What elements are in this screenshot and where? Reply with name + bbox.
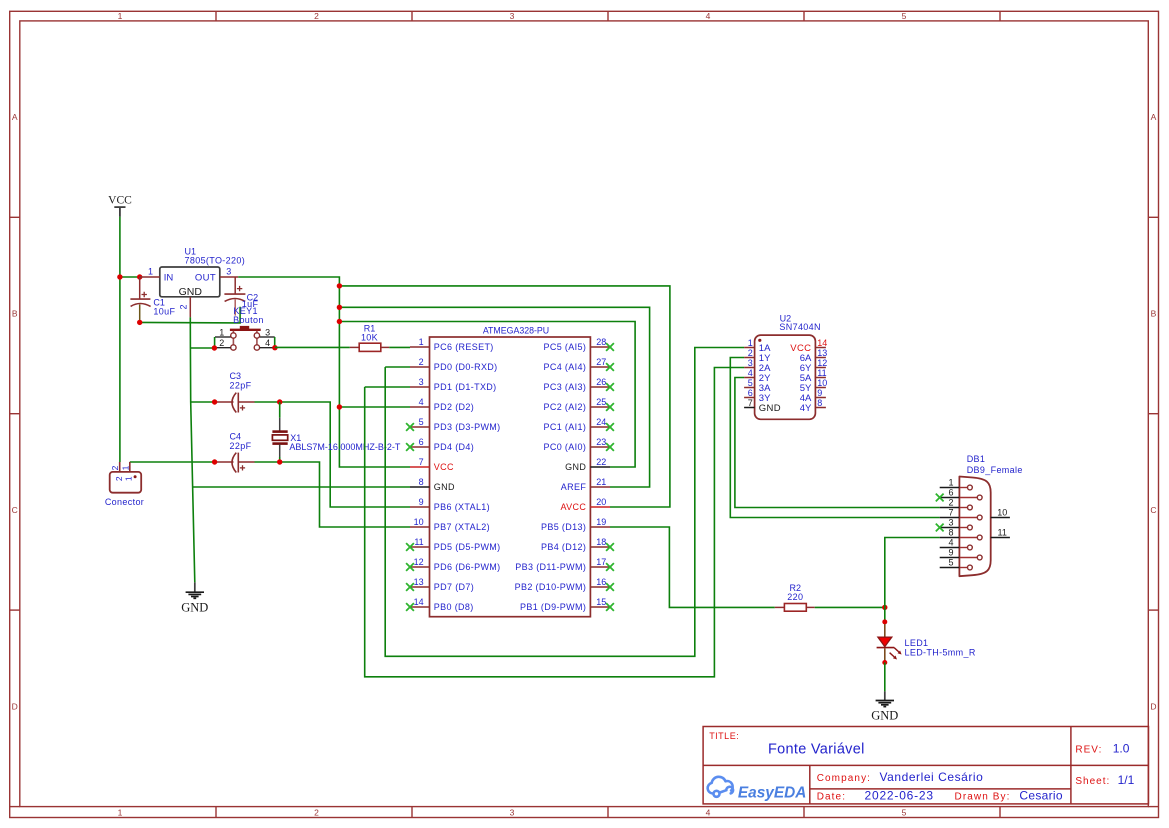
ATMEGA pin 18 PB4 (D12) bbox=[541, 537, 614, 552]
svg-text:3: 3 bbox=[265, 327, 270, 337]
svg-text:1: 1 bbox=[219, 327, 224, 337]
capacitor C2 symbol bbox=[224, 277, 245, 316]
svg-text:1: 1 bbox=[948, 478, 953, 488]
svg-text:Vanderlei Cesário: Vanderlei Cesário bbox=[880, 770, 984, 784]
U2 pin 4 2Y bbox=[744, 368, 771, 384]
svg-text:GND: GND bbox=[181, 601, 208, 615]
wire PB5 D13 to R2 bbox=[610, 527, 775, 607]
resistor R1 symbol bbox=[350, 343, 390, 351]
ATMEGA pin 24 PC1 (AI1) bbox=[544, 417, 614, 432]
junction C3 left bbox=[212, 399, 217, 404]
ATMEGA pin 4 PD2 (D2) bbox=[410, 397, 474, 412]
ic U3 ATMEGA328-PU body bbox=[430, 337, 591, 617]
U1 pin 1 IN bbox=[140, 276, 160, 278]
svg-text:PC3 (AI3): PC3 (AI3) bbox=[544, 382, 587, 392]
svg-text:5: 5 bbox=[419, 417, 424, 427]
svg-text:5: 5 bbox=[748, 378, 753, 388]
wire U1 OUT to VCC bus bbox=[238, 277, 410, 467]
wire crystal bottom stub bbox=[279, 457, 281, 462]
ATMEGA pin 17 PB3 (D11-PWM) bbox=[515, 557, 614, 572]
svg-text:4: 4 bbox=[706, 11, 711, 21]
wire LED to ground bbox=[884, 663, 886, 692]
svg-text:4: 4 bbox=[706, 807, 711, 817]
svg-text:IN: IN bbox=[164, 272, 174, 283]
svg-text:3: 3 bbox=[510, 807, 515, 817]
ATMEGA pin 14 PB0 (D8) bbox=[406, 597, 474, 612]
wire branch to button pins 1-2 bbox=[190, 347, 214, 349]
svg-text:4: 4 bbox=[748, 368, 753, 378]
wire VCC bus branch to AVCC bbox=[339, 286, 670, 507]
junction crystal top bbox=[277, 399, 282, 404]
wire C3 to XTAL1 pin9 bbox=[255, 402, 411, 507]
svg-text:22pF: 22pF bbox=[230, 380, 252, 390]
U2 pin 10 5Y bbox=[800, 378, 828, 394]
svg-text:PD0 (D0-RXD): PD0 (D0-RXD) bbox=[434, 362, 498, 372]
svg-text:Sheet:: Sheet: bbox=[1075, 776, 1110, 787]
svg-text:GND: GND bbox=[434, 482, 455, 492]
wire VCC bus branch to AREF bbox=[339, 307, 649, 487]
ATMEGA pin 5 PD3 (D3-PWM) bbox=[406, 417, 500, 432]
svg-text:1: 1 bbox=[120, 465, 130, 470]
svg-text:28: 28 bbox=[596, 337, 606, 347]
svg-text:ATMEGA328-PU: ATMEGA328-PU bbox=[483, 326, 549, 336]
svg-text:1: 1 bbox=[118, 807, 123, 817]
svg-text:26: 26 bbox=[596, 377, 606, 387]
ATMEGA pin 16 PB2 (D10-PWM) bbox=[515, 577, 614, 592]
svg-text:3: 3 bbox=[948, 518, 953, 528]
svg-text:13: 13 bbox=[817, 348, 827, 358]
ATMEGA pin 15 PB1 (D9-PWM) bbox=[520, 597, 614, 612]
svg-text:9: 9 bbox=[419, 497, 424, 507]
svg-text:12: 12 bbox=[414, 557, 424, 567]
svg-text:EasyEDA: EasyEDA bbox=[738, 785, 806, 802]
svg-text:OUT: OUT bbox=[195, 272, 216, 283]
svg-text:12: 12 bbox=[817, 358, 827, 368]
svg-text:C: C bbox=[1150, 505, 1156, 515]
svg-text:4: 4 bbox=[948, 538, 953, 548]
wire button pin3-pin4 link bbox=[274, 337, 276, 348]
ATMEGA pin 26 PC3 (AI3) bbox=[544, 377, 614, 392]
ATMEGA pin 13 PD7 (D7) bbox=[406, 577, 474, 592]
ATMEGA pin 6 PD4 (D4) bbox=[406, 437, 474, 452]
ATMEGA pin 9 PB6 (XTAL1) bbox=[410, 497, 490, 512]
wire junction down to LED bbox=[884, 607, 886, 622]
resistor R2 symbol bbox=[775, 604, 815, 612]
svg-text:PD3 (D3-PWM): PD3 (D3-PWM) bbox=[434, 422, 501, 432]
svg-text:1: 1 bbox=[748, 338, 753, 348]
wire U2 2Y to DB1 pin2 bbox=[735, 378, 940, 508]
svg-text:PB4 (D12): PB4 (D12) bbox=[541, 542, 586, 552]
svg-text:GND: GND bbox=[871, 709, 898, 723]
svg-text:19: 19 bbox=[596, 517, 606, 527]
svg-text:4: 4 bbox=[419, 397, 424, 407]
DB1 pin 6 bbox=[936, 488, 982, 502]
svg-text:A: A bbox=[1151, 112, 1157, 122]
svg-text:GND: GND bbox=[759, 403, 781, 414]
svg-text:D: D bbox=[12, 702, 18, 712]
wire R2 to LED junction bbox=[815, 606, 885, 608]
wire VCC vertical to connector bbox=[119, 217, 121, 462]
junction at U1 IN / C1 bbox=[137, 274, 142, 279]
led LED1 symbol bbox=[877, 619, 902, 665]
svg-text:3: 3 bbox=[510, 11, 515, 21]
svg-text:C: C bbox=[12, 505, 18, 515]
ATMEGA pin 20 AVCC bbox=[560, 497, 610, 512]
svg-text:13: 13 bbox=[414, 577, 424, 587]
svg-text:LED1: LED1 bbox=[905, 638, 929, 648]
pushbutton KEY1 symbol bbox=[215, 326, 275, 350]
U2 pin 3 2A bbox=[744, 358, 771, 374]
junction button left bbox=[212, 345, 217, 350]
svg-text:2: 2 bbox=[419, 357, 424, 367]
DB1 pin 2 bbox=[940, 498, 973, 510]
svg-text:10: 10 bbox=[997, 508, 1007, 518]
wire U2 1Y to DB1 pin7 bbox=[730, 358, 939, 518]
svg-text:4Y: 4Y bbox=[800, 403, 812, 414]
wire PD0 loop down bbox=[385, 348, 744, 657]
svg-text:Date:: Date: bbox=[817, 792, 846, 803]
wire R1 to ATMEGA pin1 bbox=[389, 346, 410, 348]
svg-text:2: 2 bbox=[314, 11, 319, 21]
svg-text:2: 2 bbox=[948, 498, 953, 508]
wire crystal top stub bbox=[279, 402, 281, 418]
svg-text:23: 23 bbox=[596, 437, 606, 447]
svg-text:PD1 (D1-TXD): PD1 (D1-TXD) bbox=[434, 382, 497, 392]
svg-text:18: 18 bbox=[596, 537, 606, 547]
wire PD0 to U2 1A bbox=[385, 366, 410, 368]
junction crystal bottom bbox=[277, 459, 282, 464]
EasyEDA logo cloud bbox=[708, 777, 733, 797]
wire C1 bottom stub bbox=[140, 307, 240, 323]
U2 pin 12 6Y bbox=[800, 358, 828, 374]
svg-text:9: 9 bbox=[817, 388, 822, 398]
svg-text:VCC: VCC bbox=[434, 462, 454, 472]
wire U1 GND down to ground bbox=[190, 317, 195, 582]
U1 pin 3 OUT bbox=[220, 276, 238, 278]
svg-text:A: A bbox=[12, 112, 18, 122]
svg-text:1: 1 bbox=[148, 266, 153, 276]
svg-text:GND: GND bbox=[179, 286, 203, 298]
junction PD2 branch bbox=[337, 404, 342, 409]
svg-text:1/1: 1/1 bbox=[1118, 773, 1135, 787]
ATMEGA pin 10 PB7 (XTAL2) bbox=[410, 517, 490, 532]
U2 pin 8 4Y bbox=[800, 398, 826, 414]
svg-text:REV:: REV: bbox=[1075, 744, 1102, 755]
ATMEGA pin 23 PC0 (AI0) bbox=[544, 437, 614, 452]
svg-text:PD2 (D2): PD2 (D2) bbox=[434, 402, 474, 412]
wire VCC bus branch to PD2 bbox=[339, 406, 410, 408]
wire branch to C3 bbox=[191, 401, 215, 403]
wire junction up to DB1 pin8 bbox=[885, 538, 940, 608]
svg-text:11: 11 bbox=[414, 537, 423, 547]
svg-text:7: 7 bbox=[419, 457, 424, 467]
junction AREF branch bbox=[337, 305, 342, 310]
DB1 pin 7 bbox=[940, 508, 982, 520]
svg-text:PB5 (D13): PB5 (D13) bbox=[541, 522, 586, 532]
svg-text:22: 22 bbox=[596, 457, 606, 467]
svg-text:1: 1 bbox=[419, 337, 424, 347]
svg-text:1: 1 bbox=[123, 476, 133, 481]
svg-text:6: 6 bbox=[748, 388, 753, 398]
svg-text:6: 6 bbox=[419, 437, 424, 447]
wire VCC bus branch to GND22 bbox=[339, 322, 635, 468]
svg-text:3: 3 bbox=[748, 358, 753, 368]
svg-text:PD7 (D7): PD7 (D7) bbox=[434, 582, 474, 592]
svg-text:2: 2 bbox=[179, 304, 189, 309]
svg-text:PC2 (AI2): PC2 (AI2) bbox=[544, 402, 587, 412]
svg-text:3: 3 bbox=[419, 377, 424, 387]
wire VCC to U1 IN bbox=[120, 276, 140, 278]
svg-text:B: B bbox=[1151, 309, 1157, 319]
svg-text:AVCC: AVCC bbox=[560, 502, 586, 512]
ground symbol GND right bbox=[871, 691, 898, 722]
U1 pin 2 GND lead bbox=[189, 297, 191, 318]
svg-text:PB3 (D11-PWM): PB3 (D11-PWM) bbox=[515, 562, 586, 572]
U2 pin 5 3A bbox=[744, 378, 771, 394]
svg-text:5: 5 bbox=[902, 807, 907, 817]
DB1 pin 9 bbox=[940, 548, 982, 560]
DB1 pin 5 bbox=[940, 558, 973, 570]
svg-text:17: 17 bbox=[596, 557, 606, 567]
wire PD1 loop down bbox=[365, 368, 744, 677]
svg-text:GND: GND bbox=[565, 462, 586, 472]
crystal X1 symbol bbox=[272, 418, 287, 457]
svg-text:4: 4 bbox=[265, 338, 270, 348]
DB1 pin 8 bbox=[940, 528, 982, 540]
svg-text:2: 2 bbox=[219, 338, 224, 348]
svg-text:PB1 (D9-PWM): PB1 (D9-PWM) bbox=[520, 602, 586, 612]
svg-text:VCC: VCC bbox=[108, 194, 132, 206]
U2 pin 11 5A bbox=[800, 368, 827, 384]
wire connector to C4 bbox=[130, 461, 215, 463]
svg-text:7: 7 bbox=[948, 508, 953, 518]
svg-text:DB1: DB1 bbox=[967, 454, 986, 464]
svg-text:220: 220 bbox=[787, 592, 803, 602]
U2 pin 9 4A bbox=[800, 388, 826, 404]
ATMEGA pin 7 VCC bbox=[410, 457, 454, 472]
ATMEGA pin 22 GND bbox=[565, 457, 610, 472]
ATMEGA pin 19 PB5 (D13) bbox=[541, 517, 610, 532]
svg-text:B: B bbox=[12, 309, 18, 319]
junction AVCC branch bbox=[337, 283, 342, 288]
junction C4 left bbox=[212, 459, 217, 464]
svg-text:PC5 (AI5): PC5 (AI5) bbox=[544, 342, 587, 352]
svg-text:1: 1 bbox=[118, 11, 123, 21]
svg-text:PC4 (AI4): PC4 (AI4) bbox=[544, 362, 587, 372]
svg-text:27: 27 bbox=[596, 357, 606, 367]
ATMEGA pin 8 GND bbox=[410, 477, 455, 492]
wire button to R1 bbox=[275, 346, 350, 348]
svg-text:10K: 10K bbox=[361, 332, 378, 342]
junction at VCC rail bbox=[117, 274, 122, 279]
ATMEGA pin 21 AREF bbox=[561, 477, 610, 492]
svg-text:D: D bbox=[1150, 702, 1156, 712]
svg-text:PB7 (XTAL2): PB7 (XTAL2) bbox=[434, 522, 490, 532]
svg-text:2022-06-23: 2022-06-23 bbox=[865, 789, 934, 803]
svg-text:9: 9 bbox=[948, 548, 953, 558]
connector DB1 DB9_Female body bbox=[959, 477, 990, 577]
svg-text:DB9_Female: DB9_Female bbox=[967, 465, 1023, 475]
svg-text:11: 11 bbox=[817, 368, 826, 378]
U2 pin 6 3Y bbox=[744, 388, 771, 404]
ATMEGA pin 1 PC6 (RESET) bbox=[410, 337, 494, 352]
wire button pin1-pin2 link bbox=[214, 337, 216, 348]
U2 pin 1 1A bbox=[744, 338, 771, 354]
DB1 pin 3 bbox=[936, 518, 973, 532]
title block frame bbox=[703, 727, 1148, 804]
svg-text:7805(TO-220): 7805(TO-220) bbox=[185, 256, 246, 266]
U2 pin 2 1Y bbox=[744, 348, 771, 364]
svg-text:PD4 (D4): PD4 (D4) bbox=[434, 442, 474, 452]
svg-text:SN7404N: SN7404N bbox=[779, 322, 820, 332]
svg-text:14: 14 bbox=[414, 597, 424, 607]
svg-text:PC6 (RESET): PC6 (RESET) bbox=[434, 342, 494, 352]
wire branch to ATMEGA GND pin 8 bbox=[193, 486, 410, 488]
ATMEGA pin 27 PC4 (AI4) bbox=[544, 357, 614, 372]
svg-text:Company:: Company: bbox=[817, 773, 871, 784]
svg-text:8: 8 bbox=[948, 528, 953, 538]
U2 pin 14 VCC bbox=[790, 338, 827, 354]
svg-text:20: 20 bbox=[596, 497, 606, 507]
DB1 pin 4 bbox=[940, 538, 973, 550]
ATMEGA pin 12 PD6 (D6-PWM) bbox=[406, 557, 500, 572]
svg-text:PB2 (D10-PWM): PB2 (D10-PWM) bbox=[515, 582, 587, 592]
svg-text:10uF: 10uF bbox=[153, 307, 175, 317]
ground symbol GND left bbox=[181, 582, 208, 614]
svg-text:3: 3 bbox=[226, 266, 231, 276]
svg-text:6: 6 bbox=[948, 488, 953, 498]
ATMEGA pin 2 PD0 (D0-RXD) bbox=[410, 357, 498, 372]
svg-text:2: 2 bbox=[748, 348, 753, 358]
svg-text:5: 5 bbox=[948, 558, 953, 568]
KEY1 pin numbers bbox=[219, 327, 270, 348]
svg-text:2: 2 bbox=[110, 465, 120, 470]
DB1 pin 10 bbox=[991, 508, 1010, 518]
svg-text:10: 10 bbox=[817, 378, 827, 388]
regulator U1 7805 body bbox=[160, 267, 220, 298]
junction GND22 branch bbox=[337, 319, 342, 324]
svg-text:2: 2 bbox=[314, 807, 319, 817]
svg-text:16: 16 bbox=[596, 577, 606, 587]
svg-text:7: 7 bbox=[748, 398, 753, 408]
svg-text:PD5 (D5-PWM): PD5 (D5-PWM) bbox=[434, 542, 501, 552]
connector Conector body bbox=[110, 462, 142, 493]
junction button right bbox=[272, 345, 277, 350]
U2 pin 7 GND bbox=[744, 398, 781, 414]
svg-text:14: 14 bbox=[817, 338, 827, 348]
svg-text:PC0 (AI0): PC0 (AI0) bbox=[544, 442, 587, 452]
wire PD1 to U2 2A bbox=[365, 386, 410, 388]
svg-text:21: 21 bbox=[596, 477, 606, 487]
wire C4 to XTAL2 pin10 bbox=[255, 462, 411, 527]
svg-text:8: 8 bbox=[817, 398, 822, 408]
junction at C1 bottom bbox=[137, 320, 142, 325]
svg-text:AREF: AREF bbox=[561, 482, 587, 492]
Conector pin numbers rotated bbox=[110, 465, 133, 481]
svg-text:Fonte Variável: Fonte Variável bbox=[768, 741, 865, 757]
ATMEGA pin 11 PD5 (D5-PWM) bbox=[406, 537, 500, 552]
VCC power flag bbox=[108, 194, 132, 217]
svg-text:5: 5 bbox=[902, 11, 907, 21]
svg-text:LED-TH-5mm_R: LED-TH-5mm_R bbox=[905, 647, 976, 657]
capacitor C1 symbol bbox=[130, 277, 150, 322]
svg-text:PB0 (D8): PB0 (D8) bbox=[434, 602, 474, 612]
svg-text:15: 15 bbox=[596, 597, 606, 607]
ATMEGA pin 3 PD1 (D1-TXD) bbox=[410, 377, 497, 392]
svg-text:Conector: Conector bbox=[105, 497, 144, 507]
capacitor C3 symbol bbox=[215, 393, 255, 413]
ATMEGA pin 25 PC2 (AI2) bbox=[544, 397, 614, 412]
svg-text:ABLS7M-16.000MHZ-B-2-T: ABLS7M-16.000MHZ-B-2-T bbox=[289, 442, 401, 452]
DB1 pin 1 bbox=[940, 478, 973, 490]
junction R2 LED DB1 bbox=[882, 605, 887, 610]
capacitor C4 symbol bbox=[215, 453, 255, 473]
svg-text:PD6 (D6-PWM): PD6 (D6-PWM) bbox=[434, 562, 501, 572]
svg-text:11: 11 bbox=[998, 528, 1007, 538]
svg-text:Bouton: Bouton bbox=[233, 315, 264, 325]
svg-text:Drawn By:: Drawn By: bbox=[955, 792, 1011, 803]
svg-text:10: 10 bbox=[414, 517, 424, 527]
svg-text:PB6 (XTAL1): PB6 (XTAL1) bbox=[434, 502, 490, 512]
svg-text:Cesario: Cesario bbox=[1019, 789, 1062, 803]
svg-text:24: 24 bbox=[596, 417, 606, 427]
DB1 pin 11 bbox=[991, 528, 1010, 538]
ic U2 SN7404N body bbox=[755, 335, 816, 419]
U2 pin 13 6A bbox=[800, 348, 828, 364]
svg-text:25: 25 bbox=[596, 397, 606, 407]
svg-text:TITLE:: TITLE: bbox=[709, 731, 739, 741]
svg-text:PC1 (AI1): PC1 (AI1) bbox=[544, 422, 587, 432]
svg-text:8: 8 bbox=[419, 477, 424, 487]
svg-text:22pF: 22pF bbox=[230, 441, 252, 451]
ATMEGA pin 28 PC5 (AI5) bbox=[544, 337, 614, 352]
svg-text:1.0: 1.0 bbox=[1113, 741, 1130, 755]
